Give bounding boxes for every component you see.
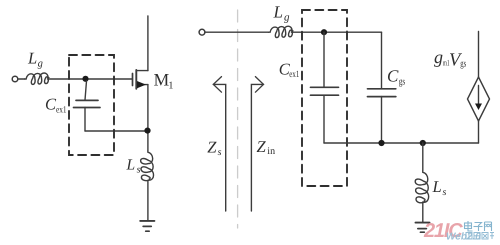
- svg-text:in: in: [267, 146, 275, 157]
- svg-text:L: L: [432, 177, 442, 196]
- svg-text:ex1: ex1: [289, 70, 299, 80]
- svg-text:Web2.0: Web2.0: [446, 232, 481, 243]
- svg-text:1: 1: [168, 81, 173, 92]
- svg-text:g: g: [38, 58, 43, 69]
- svg-text:s: s: [137, 164, 141, 175]
- svg-text:gs: gs: [399, 77, 406, 88]
- svg-text:L: L: [27, 49, 37, 68]
- svg-text:L: L: [126, 157, 136, 174]
- svg-text:Z: Z: [207, 137, 217, 156]
- svg-text:g: g: [434, 47, 443, 67]
- svg-text:L: L: [273, 2, 283, 21]
- svg-text:C: C: [387, 66, 399, 85]
- svg-text:s: s: [443, 187, 447, 198]
- svg-text:ex1: ex1: [56, 106, 67, 116]
- svg-text:Z: Z: [257, 137, 267, 156]
- svg-text:M: M: [154, 69, 170, 89]
- svg-text:g: g: [284, 12, 290, 24]
- svg-text:s: s: [218, 147, 222, 158]
- svg-text:gs: gs: [460, 59, 466, 70]
